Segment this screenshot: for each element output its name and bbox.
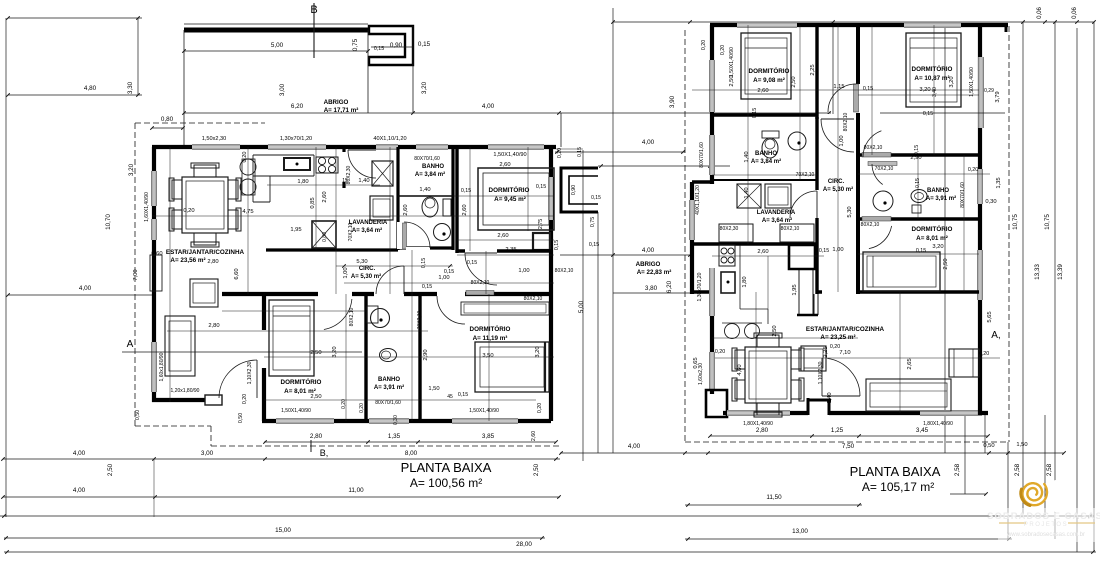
svg-text:2,58: 2,58 — [1014, 463, 1021, 476]
svg-text:2,60: 2,60 — [757, 249, 768, 255]
svg-text:80X2,30: 80X2,30 — [720, 226, 739, 232]
svg-text:2,25: 2,25 — [823, 346, 829, 357]
svg-text:0,15: 0,15 — [418, 41, 431, 48]
svg-text:A= 23,25 m²: A= 23,25 m² — [820, 334, 855, 341]
svg-text:A= 9,45 m²: A= 9,45 m² — [494, 196, 526, 203]
svg-text:1,25: 1,25 — [831, 427, 844, 434]
svg-text:A= 3,91 m²: A= 3,91 m² — [374, 384, 404, 391]
svg-text:6,20: 6,20 — [291, 103, 304, 110]
svg-text:A= 105,17 m²: A= 105,17 m² — [862, 480, 934, 494]
svg-text:3,20: 3,20 — [128, 163, 135, 176]
svg-text:0,06: 0,06 — [1037, 7, 1043, 19]
svg-text:0,90: 0,90 — [571, 185, 577, 195]
svg-text:4,00: 4,00 — [642, 247, 655, 254]
svg-text:13,33: 13,33 — [1034, 264, 1041, 280]
svg-text:70X2,10: 70X2,10 — [875, 166, 894, 172]
svg-text:3,20: 3,20 — [932, 244, 943, 250]
svg-text:DORMITÓRIO: DORMITÓRIO — [470, 324, 511, 333]
svg-text:1,50X1,40/90: 1,50X1,40/90 — [469, 408, 499, 414]
svg-text:3,80: 3,80 — [645, 285, 658, 292]
svg-text:0,15: 0,15 — [916, 248, 926, 254]
svg-text:LAVANDERIA: LAVANDERIA — [349, 220, 388, 226]
svg-text:2,25: 2,25 — [810, 64, 816, 75]
svg-text:3,79: 3,79 — [995, 91, 1001, 102]
svg-text:15: 15 — [342, 178, 348, 184]
svg-text:A,: A, — [991, 330, 1000, 341]
svg-text:A= 23,56 m²: A= 23,56 m² — [170, 257, 205, 264]
svg-text:80X2,10: 80X2,10 — [864, 145, 883, 151]
svg-text:3,20: 3,20 — [949, 76, 955, 87]
svg-text:80X70/1,60: 80X70/1,60 — [414, 156, 440, 162]
svg-text:80X70/1,60: 80X70/1,60 — [375, 400, 401, 406]
svg-text:ABRIGO: ABRIGO — [636, 261, 661, 268]
svg-text:PLANTA BAIXA: PLANTA BAIXA — [850, 464, 941, 479]
svg-text:1,00: 1,00 — [832, 247, 843, 253]
svg-text:1,35: 1,35 — [996, 177, 1002, 188]
svg-text:11,50: 11,50 — [766, 494, 782, 501]
svg-text:4,00: 4,00 — [482, 103, 495, 110]
svg-text:1,60X1,40/90: 1,60X1,40/90 — [144, 192, 150, 222]
svg-text:1,00: 1,00 — [839, 135, 845, 146]
svg-text:A= 3,91 m²: A= 3,91 m² — [926, 195, 956, 202]
svg-text:CIRC.: CIRC. — [359, 266, 376, 272]
svg-text:1,50x2,30: 1,50x2,30 — [202, 136, 227, 142]
svg-text:80X2,10: 80X2,10 — [555, 268, 574, 274]
svg-text:8,00: 8,00 — [405, 450, 418, 457]
svg-text:4,00: 4,00 — [73, 487, 86, 494]
svg-text:6,20: 6,20 — [666, 280, 673, 293]
svg-text:2,58: 2,58 — [954, 463, 961, 476]
svg-text:1,80: 1,80 — [742, 276, 748, 287]
svg-text:DORMITÓRIO: DORMITÓRIO — [749, 66, 790, 75]
svg-text:DORMITÓRIO: DORMITÓRIO — [489, 185, 530, 194]
svg-text:LAVANDERIA: LAVANDERIA — [757, 210, 796, 216]
svg-text:3,45: 3,45 — [916, 427, 929, 434]
svg-text:80X2,10: 80X2,10 — [349, 307, 355, 326]
svg-text:1,00: 1,00 — [518, 268, 529, 274]
svg-text:2,35: 2,35 — [505, 247, 516, 253]
svg-text:DORMITÓRIO: DORMITÓRIO — [912, 224, 953, 233]
svg-text:0,15: 0,15 — [915, 178, 921, 188]
svg-text:ESTAR/JANTAR/COZINHA: ESTAR/JANTAR/COZINHA — [806, 326, 885, 333]
svg-text:4,00: 4,00 — [628, 443, 641, 450]
svg-text:A= 8,01 m²: A= 8,01 m² — [916, 235, 948, 242]
svg-text:A= 3,84 m²: A= 3,84 m² — [751, 158, 781, 165]
svg-text:1,35: 1,35 — [388, 433, 401, 440]
svg-text:0,50: 0,50 — [238, 413, 244, 423]
svg-text:0,90: 0,90 — [390, 42, 403, 49]
svg-text:4,00: 4,00 — [79, 285, 92, 292]
svg-text:A= 100,56 m²: A= 100,56 m² — [410, 476, 482, 490]
svg-text:0,85: 0,85 — [310, 197, 316, 208]
svg-text:0,15: 0,15 — [444, 269, 454, 275]
svg-text:0,15: 0,15 — [914, 145, 920, 155]
svg-text:0,20: 0,20 — [830, 344, 840, 350]
svg-text:1,50X1,40/90: 1,50X1,40/90 — [969, 67, 975, 97]
svg-text:1,40: 1,40 — [419, 187, 430, 193]
svg-text:1,60x1,80/90: 1,60x1,80/90 — [159, 352, 165, 381]
svg-text:80X70/1,60: 80X70/1,60 — [699, 142, 705, 168]
svg-text:ABRIGO: ABRIGO — [324, 99, 349, 106]
svg-text:B,: B, — [320, 448, 329, 458]
svg-text:www.sobradosecasas.com.br: www.sobradosecasas.com.br — [1006, 532, 1085, 538]
svg-text:BANHO: BANHO — [755, 151, 777, 157]
svg-text:1,50X1,40/90: 1,50X1,40/90 — [281, 408, 311, 414]
svg-text:0,80: 0,80 — [161, 116, 174, 123]
svg-text:2,50: 2,50 — [107, 463, 114, 476]
svg-text:0,15: 0,15 — [422, 284, 432, 290]
svg-text:A= 9,08 m²: A= 9,08 m² — [753, 77, 785, 84]
svg-text:3,20: 3,20 — [421, 81, 428, 94]
svg-text:0,15: 0,15 — [458, 392, 468, 398]
svg-text:6,60: 6,60 — [234, 268, 240, 279]
svg-text:1,40: 1,40 — [358, 178, 369, 184]
svg-text:3,50: 3,50 — [482, 353, 493, 359]
svg-text:2,80: 2,80 — [207, 259, 218, 265]
svg-text:1,95: 1,95 — [290, 227, 301, 233]
svg-text:7,10: 7,10 — [839, 350, 850, 356]
svg-text:80X2,10: 80X2,10 — [781, 226, 800, 232]
svg-text:2,60: 2,60 — [462, 204, 468, 215]
svg-text:3,30: 3,30 — [127, 81, 134, 94]
svg-text:1,00: 1,00 — [438, 275, 449, 281]
svg-text:2,80: 2,80 — [310, 433, 323, 440]
svg-text:0,20: 0,20 — [557, 148, 563, 158]
svg-text:4,00: 4,00 — [642, 139, 655, 146]
svg-text:0,20: 0,20 — [359, 403, 365, 413]
svg-text:BANHO: BANHO — [927, 188, 949, 194]
svg-text:PROJETOS: PROJETOS — [1024, 522, 1068, 528]
svg-text:0,15: 0,15 — [819, 248, 829, 254]
svg-text:3,90: 3,90 — [669, 95, 676, 108]
svg-text:0,75: 0,75 — [352, 38, 359, 51]
svg-text:2,60: 2,60 — [757, 88, 768, 94]
svg-text:1,95: 1,95 — [792, 284, 798, 295]
svg-text:A= 3,64 m²: A= 3,64 m² — [352, 227, 382, 234]
svg-text:80X2,10: 80X2,10 — [861, 222, 880, 228]
svg-text:0,15: 0,15 — [863, 86, 873, 92]
svg-text:2,60: 2,60 — [531, 431, 537, 441]
svg-text:A= 22,83 m²: A= 22,83 m² — [637, 269, 672, 276]
svg-text:1,80: 1,80 — [297, 179, 308, 185]
svg-text:0,06: 0,06 — [1072, 7, 1078, 19]
svg-text:5,30: 5,30 — [847, 206, 853, 217]
svg-text:5,30: 5,30 — [356, 259, 367, 265]
svg-text:0,15: 0,15 — [467, 260, 477, 266]
svg-text:7,50: 7,50 — [842, 443, 855, 450]
svg-text:80X2,10: 80X2,10 — [843, 112, 849, 131]
svg-text:0,20: 0,20 — [341, 399, 347, 409]
svg-text:3,40: 3,40 — [932, 87, 938, 97]
svg-text:2,60: 2,60 — [403, 204, 409, 215]
svg-text:A= 3,64 m²: A= 3,64 m² — [762, 217, 792, 224]
svg-text:2,60: 2,60 — [499, 162, 510, 168]
svg-text:2,65: 2,65 — [907, 358, 913, 369]
svg-text:0,15: 0,15 — [577, 147, 583, 157]
svg-text:1,30x70/1,20: 1,30x70/1,20 — [697, 272, 703, 301]
svg-text:28,00: 28,00 — [516, 541, 532, 548]
svg-text:0,60: 0,60 — [151, 251, 162, 257]
svg-text:PLANTA BAIXA: PLANTA BAIXA — [401, 460, 492, 475]
svg-text:3,20: 3,20 — [919, 87, 930, 93]
svg-text:0,15: 0,15 — [536, 184, 546, 190]
svg-text:1,10X2,30: 1,10X2,30 — [818, 361, 824, 384]
svg-text:3,85: 3,85 — [482, 433, 495, 440]
svg-text:10,70: 10,70 — [105, 214, 112, 230]
svg-text:40X1,10/1,20: 40X1,10/1,20 — [695, 185, 701, 215]
svg-text:4,75: 4,75 — [242, 209, 253, 215]
svg-text:1,20x1,80/90: 1,20x1,80/90 — [171, 388, 200, 394]
svg-text:0,15: 0,15 — [589, 242, 599, 248]
svg-text:A= 10,87 m²: A= 10,87 m² — [914, 75, 949, 82]
svg-text:A= 5,30 m²: A= 5,30 m² — [823, 186, 853, 193]
svg-text:0,15: 0,15 — [752, 108, 758, 118]
svg-text:4,80: 4,80 — [84, 85, 97, 92]
svg-text:0,80: 0,80 — [322, 232, 328, 242]
svg-text:5,00: 5,00 — [578, 300, 585, 313]
svg-text:A= 3,84 m²: A= 3,84 m² — [415, 171, 445, 178]
svg-text:70X2,10: 70X2,10 — [417, 310, 423, 329]
svg-text:0,50: 0,50 — [135, 410, 141, 420]
svg-text:0,30: 0,30 — [393, 415, 399, 425]
svg-text:7,00: 7,00 — [133, 269, 139, 280]
svg-text:2,60: 2,60 — [322, 191, 328, 202]
svg-text:0,30: 0,30 — [985, 199, 996, 205]
svg-text:1,10X2,30: 1,10X2,30 — [247, 361, 253, 384]
svg-text:0,75: 0,75 — [590, 217, 596, 227]
svg-text:2,60: 2,60 — [497, 233, 508, 239]
svg-text:4,60: 4,60 — [737, 364, 743, 375]
svg-text:2,50: 2,50 — [310, 394, 321, 400]
svg-text:0,20: 0,20 — [183, 208, 194, 214]
svg-text:80X70/1,60: 80X70/1,60 — [960, 182, 966, 208]
svg-text:1,50: 1,50 — [428, 386, 439, 392]
svg-text:A= 5,30 m²: A= 5,30 m² — [351, 273, 381, 280]
svg-text:2,58: 2,58 — [1046, 463, 1053, 476]
svg-text:CIRC.: CIRC. — [828, 179, 845, 185]
svg-text:80X2,10: 80X2,10 — [524, 296, 543, 302]
svg-text:11,00: 11,00 — [348, 487, 364, 494]
svg-text:A= 17,71 m²: A= 17,71 m² — [324, 107, 359, 114]
svg-text:0,29: 0,29 — [984, 88, 994, 94]
svg-text:1,40: 1,40 — [744, 187, 750, 198]
svg-text:1,00: 1,00 — [343, 267, 349, 278]
svg-text:DORMITÓRIO: DORMITÓRIO — [281, 377, 322, 386]
svg-text:BANHO: BANHO — [422, 164, 444, 170]
svg-text:1,15: 1,15 — [833, 84, 844, 90]
svg-text:2,90: 2,90 — [423, 349, 429, 360]
svg-text:2,50: 2,50 — [772, 325, 778, 336]
svg-text:0,65: 0,65 — [693, 357, 699, 368]
svg-text:10,75: 10,75 — [1044, 214, 1051, 230]
svg-text:3,20: 3,20 — [535, 346, 541, 357]
svg-text:2,75: 2,75 — [538, 219, 544, 229]
svg-text:ESTAR/JANTAR/COZINHA: ESTAR/JANTAR/COZINHA — [166, 249, 245, 256]
svg-text:0,20: 0,20 — [968, 167, 978, 173]
svg-text:A: A — [127, 339, 134, 350]
svg-text:70X2,10: 70X2,10 — [796, 172, 815, 178]
svg-text:2,50: 2,50 — [791, 76, 797, 87]
svg-text:0,15: 0,15 — [461, 188, 471, 194]
svg-text:1,50X1,40/90: 1,50X1,40/90 — [493, 152, 526, 158]
svg-text:0,20: 0,20 — [242, 152, 248, 163]
svg-text:2,80: 2,80 — [756, 427, 769, 434]
svg-text:10,75: 10,75 — [1012, 214, 1019, 230]
svg-text:4,00: 4,00 — [73, 450, 86, 457]
svg-text:1,50: 1,50 — [1016, 442, 1027, 448]
svg-text:0,15: 0,15 — [421, 258, 427, 268]
svg-text:0,20: 0,20 — [537, 403, 543, 413]
svg-text:2,50: 2,50 — [729, 75, 735, 86]
svg-text:SOBRADOS E CASAS: SOBRADOS E CASAS — [987, 511, 1100, 522]
svg-text:1,40: 1,40 — [744, 151, 750, 162]
svg-text:2,50: 2,50 — [310, 350, 321, 356]
svg-text:0,20: 0,20 — [720, 45, 726, 55]
svg-text:0,20: 0,20 — [715, 349, 725, 355]
svg-text:45: 45 — [447, 394, 453, 400]
svg-text:5,00: 5,00 — [271, 42, 284, 49]
svg-text:2,50: 2,50 — [943, 258, 949, 269]
svg-text:0,20: 0,20 — [242, 394, 248, 404]
svg-text:2,50: 2,50 — [533, 463, 540, 476]
svg-text:0,40: 0,40 — [827, 392, 833, 403]
svg-text:40X1,10/1,20: 40X1,10/1,20 — [373, 136, 406, 142]
svg-text:1,30x70/1,20: 1,30x70/1,20 — [280, 136, 312, 142]
svg-text:0,20: 0,20 — [701, 40, 707, 50]
svg-text:70X2,10: 70X2,10 — [348, 222, 354, 241]
svg-text:0,15: 0,15 — [591, 195, 601, 201]
svg-text:0,15: 0,15 — [554, 240, 560, 250]
svg-text:A= 11,19 m³: A= 11,19 m³ — [473, 335, 508, 342]
svg-text:2,80: 2,80 — [208, 323, 219, 329]
svg-text:3,00: 3,00 — [201, 450, 214, 457]
svg-text:15,00: 15,00 — [275, 527, 291, 534]
svg-text:13,00: 13,00 — [792, 528, 808, 535]
svg-text:3,00: 3,00 — [279, 83, 286, 96]
svg-text:13,39: 13,39 — [1057, 264, 1064, 280]
svg-text:DORMITÓRIO: DORMITÓRIO — [912, 64, 953, 73]
svg-text:BANHO: BANHO — [378, 377, 400, 383]
svg-text:80X2,10: 80X2,10 — [471, 280, 490, 286]
svg-text:5,65: 5,65 — [987, 311, 993, 322]
svg-text:0,20: 0,20 — [979, 351, 989, 357]
svg-text:0,15: 0,15 — [923, 111, 933, 117]
svg-text:1,50X1,40/90: 1,50X1,40/90 — [729, 47, 735, 77]
